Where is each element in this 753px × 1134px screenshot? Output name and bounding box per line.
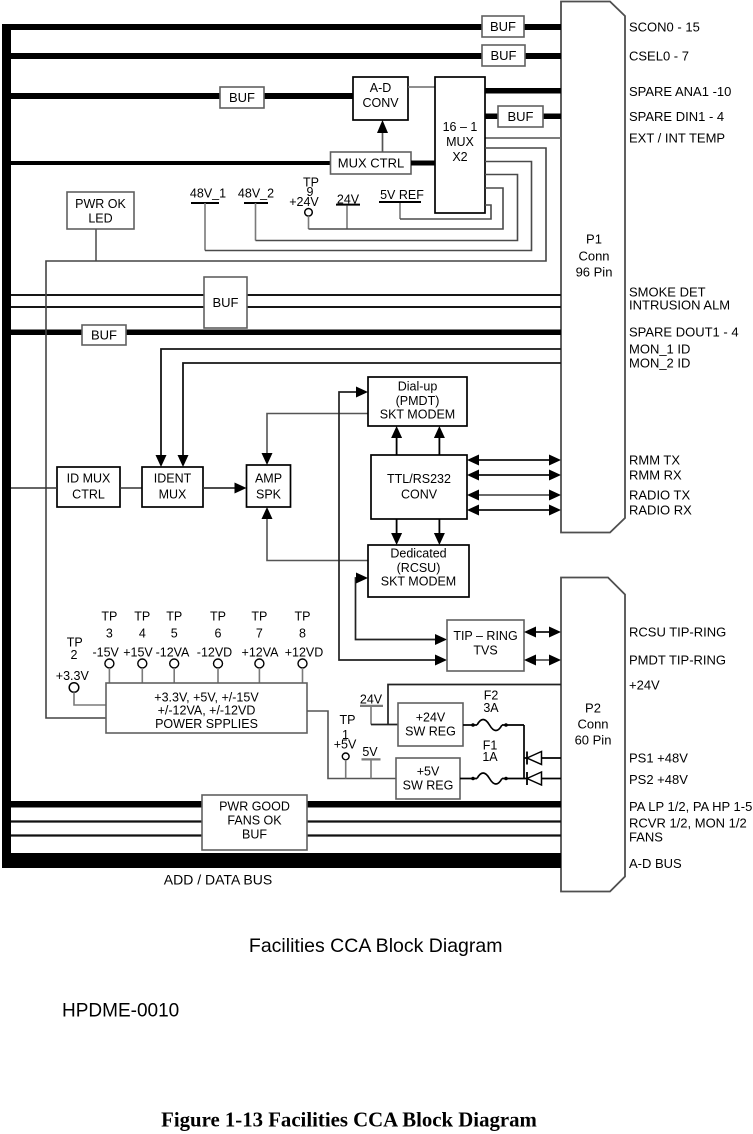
svg-text:96 Pin: 96 Pin	[576, 265, 613, 280]
svg-text:MON_1 ID: MON_1 ID	[629, 342, 690, 357]
wire PMDT tip-ring Dial-up to TVS	[339, 392, 435, 660]
test point TP7 +12VA	[242, 610, 280, 684]
wire TP9 drop	[308, 216, 310, 229]
svg-text:-12VA: -12VA	[156, 646, 190, 660]
test point TP3 -15V	[92, 610, 119, 684]
wire MON_1 ID	[161, 349, 561, 461]
arrow into IDENT MUX pin 1	[156, 455, 167, 467]
svg-text:Figure 1-13 Facilities CCA Blo: Figure 1-13 Facilities CCA Block Diagram	[161, 1109, 537, 1132]
svg-text:TP: TP	[251, 610, 267, 624]
test point TP8 +12VD	[285, 610, 324, 684]
connector P2 (60 pin)	[561, 578, 625, 892]
mux control U? MUX CTRL	[331, 152, 412, 174]
svg-text:POWER SPPLIES: POWER SPPLIES	[155, 717, 258, 731]
svg-text:TP: TP	[295, 610, 311, 624]
svg-text:HPDME-0010: HPDME-0010	[62, 1001, 179, 1022]
svg-text:PWR OK: PWR OK	[75, 197, 126, 211]
svg-text:PS2 +48V: PS2 +48V	[629, 772, 688, 787]
svg-text:Conn: Conn	[577, 717, 608, 732]
wire RCSU TIP-RING double arrow to P2	[524, 627, 561, 638]
svg-text:+12VA: +12VA	[242, 646, 280, 660]
modem U? Dedicated (RCSU) SKT MODEM	[368, 545, 469, 597]
buffer PWR GOOD FANS OK BUF	[202, 795, 307, 850]
bus wire to A-D CONV	[2, 93, 353, 99]
multiplexer U? 16-1 MUX X2	[435, 77, 485, 213]
svg-text:Dial-up: Dial-up	[398, 380, 438, 394]
bus wire SPARE DIN1	[485, 114, 561, 120]
svg-text:MUX CTRL: MUX CTRL	[338, 156, 404, 171]
svg-text:SPK: SPK	[256, 488, 282, 502]
regulator +5V SW REG	[396, 758, 460, 799]
modem U? Dial-up (PMDT) SKT MODEM	[368, 377, 467, 426]
svg-text:TVS: TVS	[473, 644, 497, 658]
diode D1 PS1	[527, 752, 561, 765]
svg-text:+24V: +24V	[289, 195, 319, 209]
wire fans row 1	[11, 820, 561, 822]
node 24V label	[336, 193, 360, 207]
svg-text:3: 3	[106, 627, 113, 641]
power supply PS POWER SPPLIES	[106, 683, 307, 733]
svg-text:P1: P1	[586, 232, 602, 247]
svg-text:RADIO RX: RADIO RX	[629, 503, 692, 518]
svg-text:P2: P2	[585, 701, 601, 716]
svg-text:Conn: Conn	[578, 249, 609, 264]
tvs U? TIP-RING TVS	[447, 620, 524, 671]
svg-text:-15V: -15V	[92, 646, 119, 660]
svg-text:BUF: BUF	[491, 48, 517, 63]
svg-text:1A: 1A	[482, 750, 498, 764]
wire PWR OK LED drop	[95, 229, 97, 261]
buffer BUF on SPARE DOUT line	[82, 325, 126, 345]
svg-text:RCSU TIP-RING: RCSU TIP-RING	[629, 625, 726, 640]
svg-text:TTL/RS232: TTL/RS232	[387, 472, 451, 486]
svg-text:TIP – RING: TIP – RING	[453, 629, 517, 643]
svg-text:EXT / INT TEMP: EXT / INT TEMP	[629, 131, 725, 146]
svg-text:BUF: BUF	[229, 90, 255, 105]
wire PWR OK net loop to MUX and power supplies	[46, 148, 546, 718]
svg-text:SW REG: SW REG	[405, 724, 456, 738]
test point TP6 -12VD	[197, 610, 232, 684]
buffer U? BUF on SCON line	[482, 16, 524, 37]
svg-text:X2: X2	[452, 150, 467, 164]
wire TP2 to power supplies	[74, 692, 106, 705]
test point TP4 +15V	[123, 610, 153, 684]
svg-text:RMM TX: RMM TX	[629, 453, 680, 468]
svg-text:SPARE DIN1 - 4: SPARE DIN1 - 4	[629, 109, 724, 124]
buffer BUF on A-D bus line	[220, 87, 264, 108]
svg-text:MON_2 ID: MON_2 ID	[629, 356, 690, 371]
wire MON_2 ID	[183, 363, 561, 461]
node 5V label	[362, 745, 381, 778]
svg-text:+5V: +5V	[334, 738, 357, 752]
svg-text:3A: 3A	[483, 701, 499, 715]
svg-text:-12VD: -12VD	[197, 646, 232, 660]
svg-text:6: 6	[215, 627, 222, 641]
svg-text:ADD / DATA BUS: ADD / DATA BUS	[164, 872, 272, 888]
wire Dedicated modem to AMP SPK bottom	[267, 519, 368, 561]
wire RADIO RX double arrow	[467, 505, 561, 516]
svg-text:TP: TP	[210, 610, 226, 624]
svg-text:A-D BUS: A-D BUS	[629, 856, 682, 871]
wire Dial-up modem to AMP SPK top	[267, 414, 368, 454]
svg-text:(RCSU): (RCSU)	[397, 561, 441, 575]
wire INTRUSION ALM	[11, 306, 561, 308]
node 48V_2 label	[238, 187, 274, 203]
bus A-D / ADD-DATA BUS	[11, 853, 561, 868]
svg-text:A-D: A-D	[370, 81, 392, 95]
svg-text:+15V: +15V	[123, 646, 153, 660]
converter U? TTL/RS232 CONV	[371, 455, 467, 519]
svg-text:RADIO TX: RADIO TX	[629, 488, 690, 503]
wire TTL to Dedicated arrow 1	[396, 519, 398, 535]
svg-text:TP: TP	[166, 610, 182, 624]
buffer BUF on SPARE DIN line	[498, 106, 543, 127]
connector P1 (96 pin)	[561, 2, 625, 533]
wire ID MUX CTRL to IDENT MUX	[120, 487, 142, 489]
wire RCSU tip-ring Dedicated to TVS	[356, 578, 436, 640]
wire power supplies 5V rail to +5V SW REG	[307, 711, 396, 779]
svg-text:BUF: BUF	[508, 109, 534, 124]
bus wire SCON0-15	[2, 24, 561, 30]
svg-text:CONV: CONV	[401, 488, 438, 502]
wire TTL to Dial-up arrow 2	[438, 436, 440, 455]
svg-text:MUX: MUX	[159, 488, 187, 502]
wire TTL to Dial-up arrow 1	[396, 436, 398, 455]
svg-text:BUF: BUF	[213, 295, 239, 310]
wire PMDT TIP-RING double arrow to P2	[524, 655, 561, 666]
wire RMM TX double arrow	[467, 455, 561, 466]
svg-text:MUX: MUX	[446, 135, 474, 149]
bus wire CSEL0-7	[2, 53, 561, 59]
led PWR OK LED	[67, 192, 134, 229]
svg-text:PA LP 1/2, PA HP 1-5: PA LP 1/2, PA HP 1-5	[629, 799, 752, 814]
svg-text:ID MUX: ID MUX	[67, 472, 111, 486]
regulator +24V SW REG	[398, 703, 463, 746]
svg-text:SKT MODEM: SKT MODEM	[381, 575, 456, 589]
svg-text:+/-12VA, +/-12VD: +/-12VA, +/-12VD	[158, 704, 256, 718]
svg-text:5V: 5V	[362, 745, 378, 759]
svg-text:16 – 1: 16 – 1	[443, 120, 478, 134]
svg-text:FANS: FANS	[629, 830, 663, 845]
wire bus to ID MUX CTRL	[11, 487, 57, 489]
svg-text:SPARE ANA1 -10: SPARE ANA1 -10	[629, 84, 731, 99]
svg-text:SW REG: SW REG	[403, 778, 454, 792]
wire 5V REF loop to MUX	[399, 203, 401, 219]
diode D2 PS2	[527, 772, 561, 785]
ident mux U? IDENT MUX	[142, 467, 203, 507]
wire 24V loop to MUX	[346, 206, 348, 230]
svg-text:SCON0 - 15: SCON0 - 15	[629, 20, 700, 35]
wire EXT/INT TEMP	[485, 137, 561, 139]
id mux control U? ID MUX CTRL	[57, 467, 120, 507]
svg-text:48V_1: 48V_1	[190, 187, 226, 201]
svg-text:8: 8	[299, 627, 306, 641]
svg-text:SKT MODEM: SKT MODEM	[380, 408, 455, 422]
svg-text:RMM RX: RMM RX	[629, 468, 682, 483]
fuse F1 1A	[460, 739, 527, 785]
svg-text:BUF: BUF	[91, 328, 117, 343]
svg-text:CTRL: CTRL	[72, 488, 105, 502]
test point TP2 +3.3V	[56, 636, 90, 693]
wire MUX CTRL to A-D CONV with arrow	[382, 131, 384, 152]
svg-text:Dedicated: Dedicated	[390, 547, 446, 561]
node 48V_1 label	[190, 187, 226, 203]
node 5V REF label	[379, 188, 424, 202]
a-d converter U? A-D CONV	[353, 77, 408, 120]
svg-text:24V: 24V	[360, 693, 383, 707]
svg-text:+24V: +24V	[629, 678, 660, 693]
svg-text:FANS OK: FANS OK	[227, 814, 282, 828]
svg-text:TP: TP	[340, 713, 356, 727]
left vertical bus bar	[2, 24, 11, 868]
svg-text:60 Pin: 60 Pin	[575, 733, 612, 748]
svg-text:RCVR 1/2, MON 1/2: RCVR 1/2, MON 1/2	[629, 816, 747, 831]
svg-text:IDENT: IDENT	[154, 472, 192, 486]
amplifier AMP SPK	[247, 465, 291, 507]
svg-text:AMP: AMP	[255, 472, 282, 486]
wire SMOKE DET	[11, 294, 561, 296]
bus wire PWR GOOD row	[11, 801, 561, 808]
svg-text:CONV: CONV	[362, 96, 399, 110]
buffer BUF on smoke/intrusion lines	[204, 277, 247, 328]
svg-text:7: 7	[256, 627, 263, 641]
wire A-D CONV to MUX	[408, 86, 435, 88]
svg-text:2: 2	[71, 648, 78, 662]
svg-text:+3.3V: +3.3V	[56, 669, 90, 683]
wire diode-OR node	[524, 725, 527, 779]
svg-text:SPARE DOUT1 - 4: SPARE DOUT1 - 4	[629, 325, 739, 340]
test point TP9 +24V	[289, 176, 319, 217]
wire TTL to Dedicated arrow 2	[438, 519, 440, 535]
svg-text:+5V: +5V	[417, 764, 440, 778]
svg-text:+12VD: +12VD	[285, 646, 324, 660]
svg-text:+3.3V, +5V, +/-15V: +3.3V, +5V, +/-15V	[154, 691, 259, 705]
svg-text:48V_2: 48V_2	[238, 187, 274, 201]
fuse F2 3A	[463, 689, 524, 731]
test point TP1 +5V	[334, 713, 357, 779]
wire MUX CTRL to MUX	[411, 161, 435, 166]
wire RMM RX double arrow	[467, 470, 561, 481]
wire IDENT MUX to AMP SPK with arrow	[203, 487, 236, 489]
svg-text:LED: LED	[88, 212, 112, 226]
arrow into IDENT MUX pin 2	[178, 455, 189, 467]
node 24V label bottom	[360, 693, 383, 725]
svg-text:CSEL0 - 7: CSEL0 - 7	[629, 49, 689, 64]
bus wire SPARE DOUT1-4	[11, 330, 561, 336]
svg-text:+24V: +24V	[416, 710, 446, 724]
wire fans row 2	[11, 834, 561, 836]
wire 48V_1 loop to MUX	[204, 203, 206, 251]
svg-text:INTRUSION ALM: INTRUSION ALM	[629, 298, 730, 313]
svg-text:5: 5	[171, 627, 178, 641]
wire RADIO TX double arrow	[467, 490, 561, 501]
svg-text:4: 4	[139, 627, 146, 641]
svg-text:PMDT TIP-RING: PMDT TIP-RING	[629, 653, 726, 668]
wire 48V_2 loop to MUX	[255, 203, 257, 241]
svg-text:(PMDT): (PMDT)	[396, 394, 440, 408]
test point TP5 -12VA	[156, 610, 190, 684]
svg-text:TP: TP	[134, 610, 150, 624]
svg-text:BUF: BUF	[490, 19, 516, 34]
svg-text:Facilities CCA Block Diagram: Facilities CCA Block Diagram	[249, 935, 503, 957]
wire P2 +24V to SW REG input	[371, 685, 561, 725]
bus wire SPARE ANA1	[485, 88, 561, 94]
bus wire to MUX CTRL	[2, 161, 330, 165]
svg-text:TP: TP	[101, 610, 117, 624]
buffer BUF on CSEL line	[482, 45, 525, 66]
svg-text:5V REF: 5V REF	[380, 188, 424, 202]
svg-text:BUF: BUF	[242, 828, 267, 842]
svg-text:PWR GOOD: PWR GOOD	[219, 800, 290, 814]
svg-text:PS1 +48V: PS1 +48V	[629, 751, 688, 766]
